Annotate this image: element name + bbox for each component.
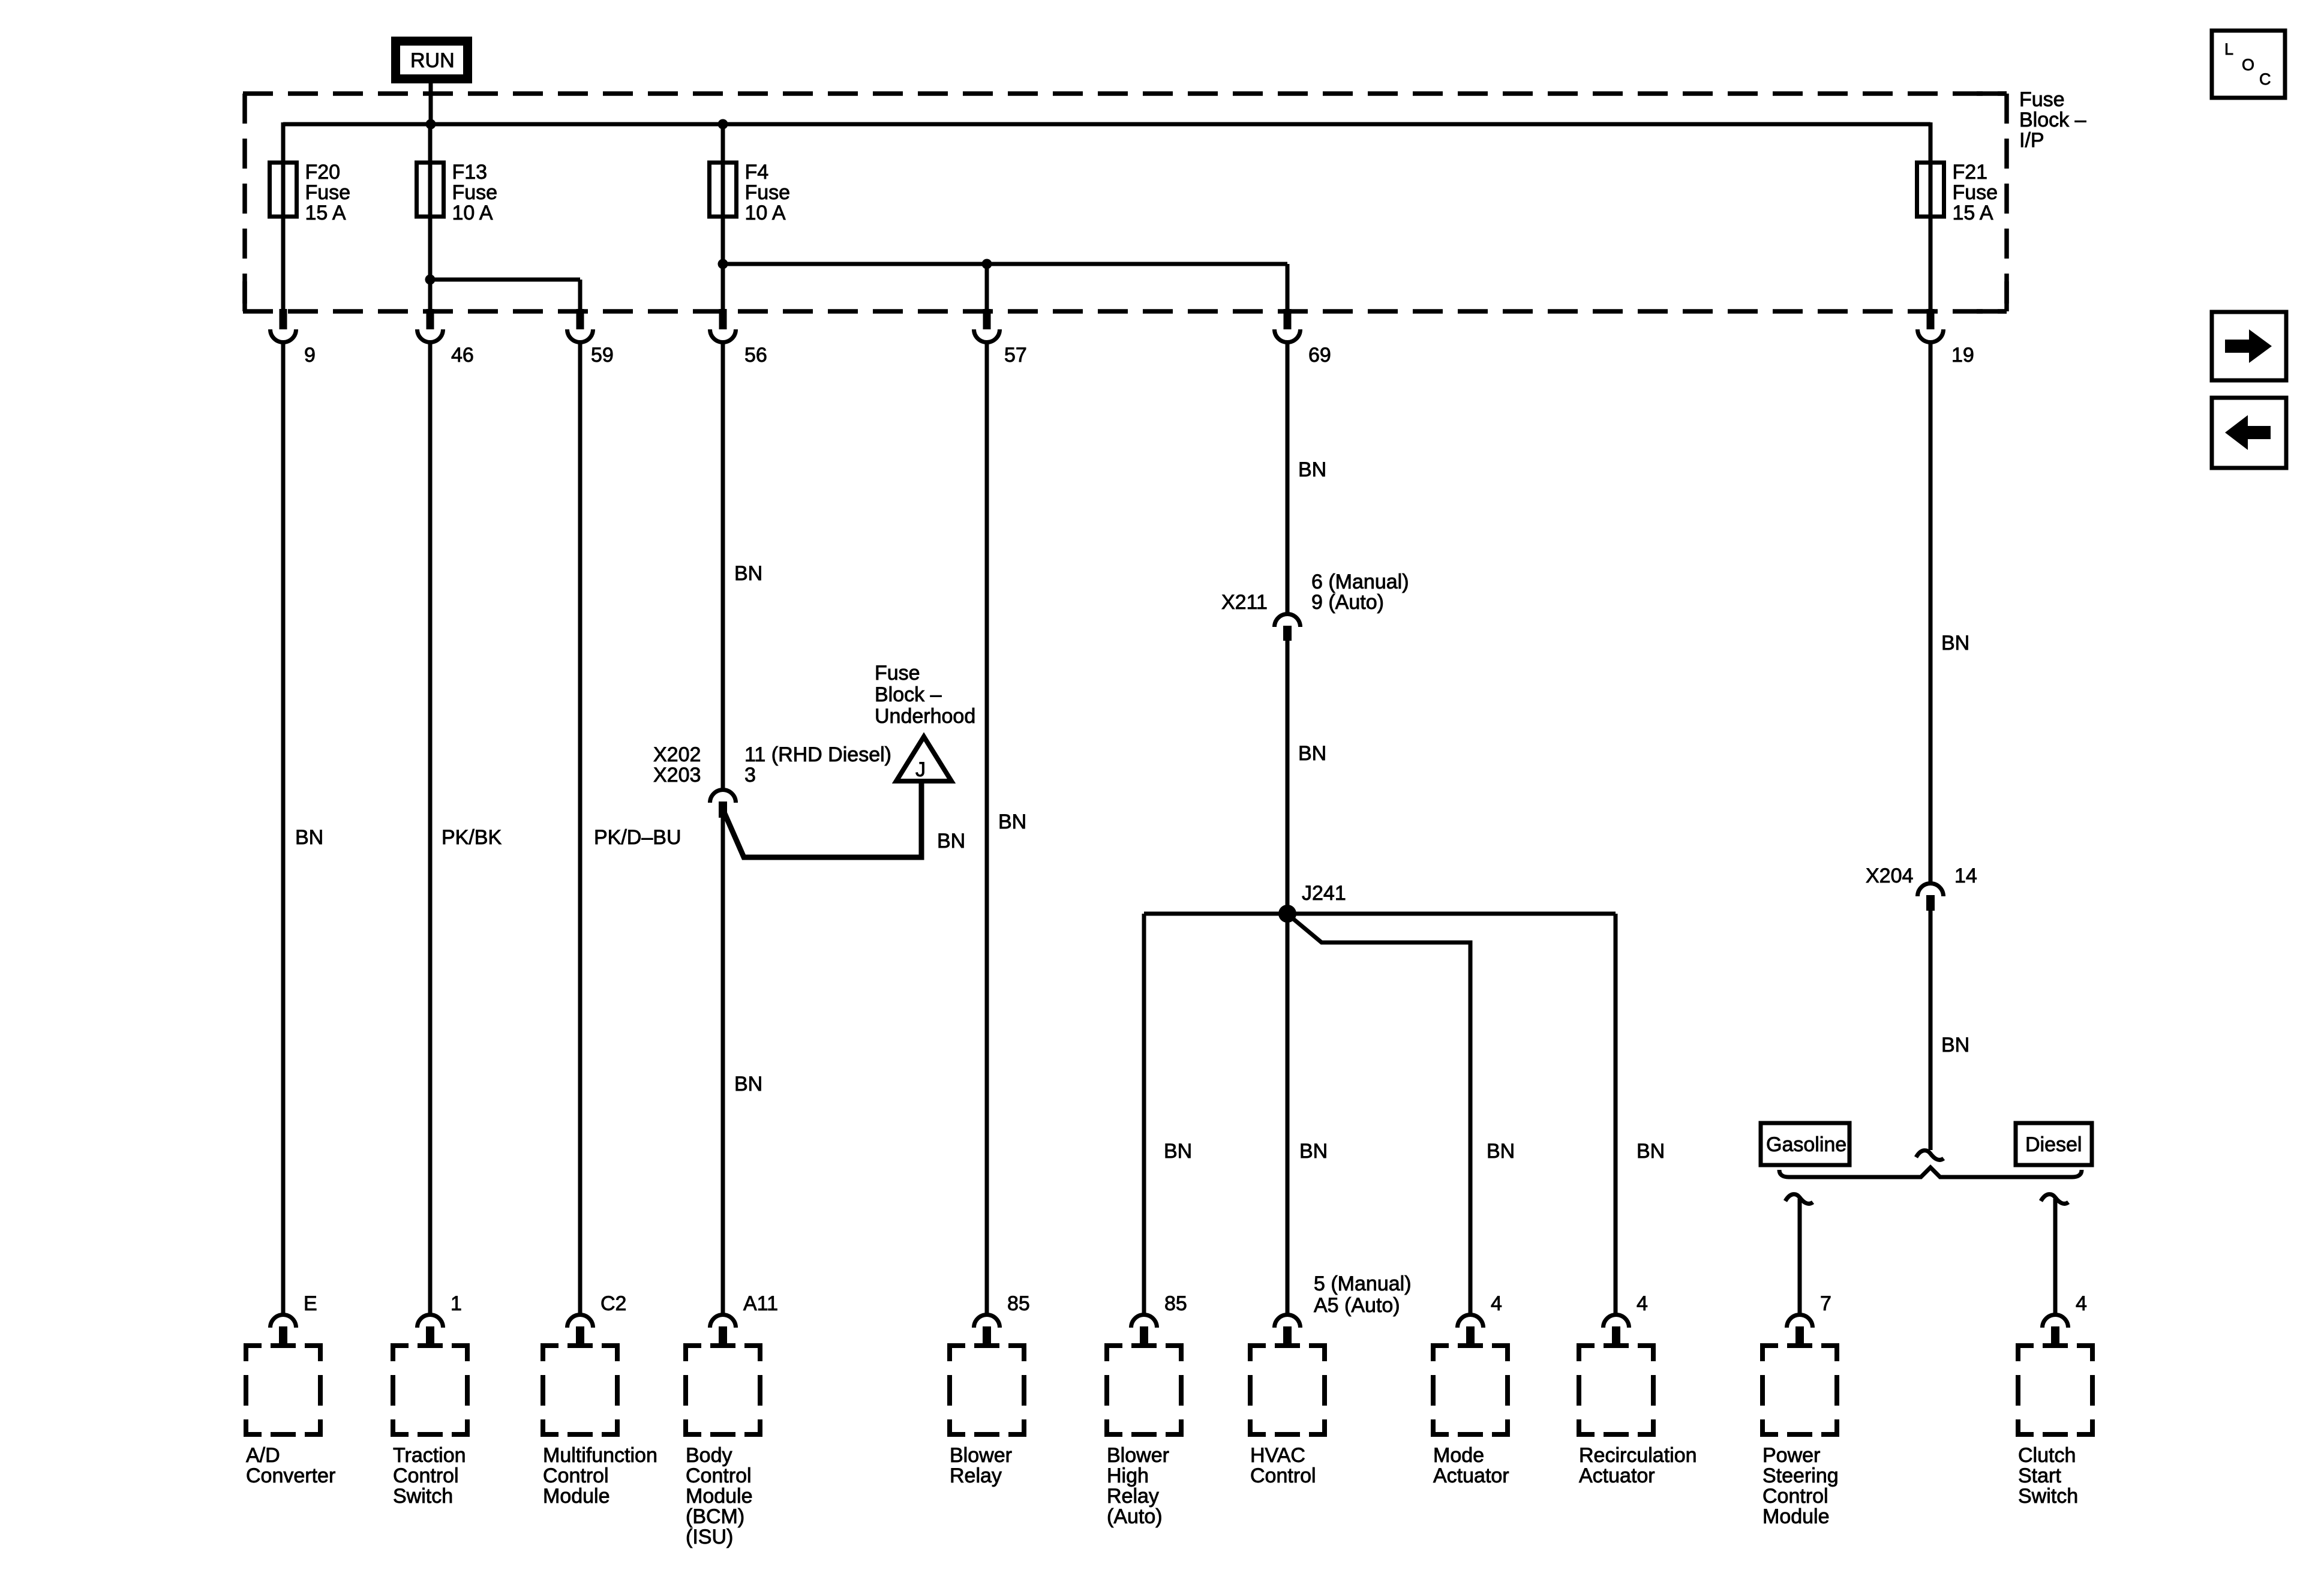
svg-text:Traction: Traction	[393, 1444, 466, 1467]
wire J241 horizontal	[1144, 912, 1616, 916]
label recirculation actuator	[1579, 1444, 1697, 1487]
svg-text:(BCM): (BCM)	[686, 1505, 744, 1528]
svg-text:69: 69	[1308, 344, 1331, 367]
svg-text:Module: Module	[543, 1485, 610, 1508]
component box mode actuator	[1433, 1346, 1508, 1434]
svg-text:Body: Body	[686, 1444, 732, 1467]
wire break curl gasoline branch	[1785, 1194, 1813, 1204]
svg-text:Control: Control	[686, 1464, 752, 1487]
svg-text:BN: BN	[295, 826, 323, 849]
svg-text:56: 56	[744, 344, 767, 367]
label Fuse Block - Underhood	[875, 662, 975, 728]
wire PK/D-BU to multifunction control module	[578, 342, 582, 1314]
svg-text:11 (RHD Diesel): 11 (RHD Diesel)	[744, 743, 891, 766]
svg-text:A11: A11	[743, 1292, 778, 1315]
connector terminal 19	[1918, 309, 1944, 343]
svg-text:4: 4	[1491, 1292, 1502, 1315]
svg-text:10 A: 10 A	[745, 202, 786, 224]
arrow right box	[2212, 312, 2286, 380]
label blower relay	[950, 1444, 1012, 1487]
svg-text:85: 85	[1164, 1292, 1187, 1315]
svg-text:Start: Start	[2018, 1464, 2061, 1487]
connector terminal 56	[710, 309, 736, 343]
svg-text:Module: Module	[1762, 1505, 1830, 1528]
option label box Gasoline	[1761, 1123, 1849, 1165]
svg-text:Control: Control	[1250, 1464, 1316, 1487]
wire BN to blower high relay	[1142, 914, 1146, 1314]
svg-text:57: 57	[1004, 344, 1027, 367]
wire F21 branch	[1929, 122, 1933, 311]
splice J241	[1278, 905, 1296, 923]
svg-text:46: 46	[451, 344, 474, 367]
component box traction control switch	[393, 1346, 467, 1434]
wire BN to A/D converter	[281, 342, 286, 1314]
svg-text:Switch: Switch	[393, 1485, 453, 1508]
svg-text:Fuse: Fuse	[1953, 181, 1998, 204]
svg-text:4: 4	[2076, 1292, 2087, 1315]
wire to clutch start switch	[2053, 1199, 2058, 1314]
svg-text:59: 59	[591, 344, 614, 367]
svg-text:X211: X211	[1221, 591, 1268, 614]
svg-text:A/D: A/D	[246, 1444, 280, 1467]
wire J241 to mode actuator	[1289, 915, 1470, 1314]
svg-text:15 A: 15 A	[305, 202, 346, 224]
svg-text:Fuse: Fuse	[305, 181, 351, 204]
svg-text:BN: BN	[1637, 1140, 1665, 1163]
option split brace	[1779, 1167, 2082, 1177]
svg-text:Control: Control	[393, 1464, 459, 1487]
component box A/D converter	[246, 1346, 320, 1434]
connector X202/X203	[710, 790, 736, 818]
arrow triangle J to fuse block underhood	[896, 737, 951, 781]
svg-text:BN: BN	[998, 810, 1026, 833]
LOC reference box	[2212, 31, 2285, 98]
connector pin at mode actuator	[1458, 1315, 1484, 1346]
svg-text:7: 7	[1820, 1292, 1831, 1315]
svg-text:Module: Module	[686, 1485, 753, 1508]
svg-text:F21: F21	[1953, 161, 1988, 184]
svg-text:Actuator: Actuator	[1433, 1464, 1509, 1487]
label HVAC control	[1250, 1444, 1316, 1487]
component box blower high relay auto	[1107, 1346, 1181, 1434]
label body control module BCM ISU	[686, 1444, 753, 1548]
wire branch to fuse block underhood	[725, 782, 921, 857]
component box HVAC control	[1250, 1346, 1325, 1434]
component box multifunction control module	[543, 1346, 617, 1434]
svg-text:85: 85	[1007, 1292, 1030, 1315]
svg-text:9: 9	[304, 344, 316, 367]
svg-text:6 (Manual): 6 (Manual)	[1311, 571, 1409, 593]
svg-text:10 A: 10 A	[452, 202, 493, 224]
svg-text:5 (Manual): 5 (Manual)	[1314, 1272, 1412, 1295]
svg-text:Power: Power	[1762, 1444, 1820, 1467]
wire BN to BCM	[721, 816, 725, 1314]
junction F4 link	[718, 259, 728, 269]
svg-text:BN: BN	[1298, 742, 1326, 765]
connector X211	[1275, 614, 1301, 641]
svg-text:Control: Control	[1762, 1485, 1828, 1508]
svg-text:19: 19	[1951, 344, 1974, 367]
component box recirculation actuator	[1579, 1346, 1653, 1434]
svg-text:BN: BN	[1487, 1140, 1515, 1163]
svg-text:15 A: 15 A	[1953, 202, 1993, 224]
svg-text:1: 1	[451, 1292, 462, 1315]
connector pin at body control module BCM ISU	[710, 1315, 736, 1346]
component box blower relay	[950, 1346, 1024, 1434]
svg-text:X204: X204	[1866, 864, 1913, 887]
label multifunction control module	[543, 1444, 657, 1508]
svg-text:PK/D–BU: PK/D–BU	[594, 826, 681, 849]
wire terminal 59 drop	[578, 280, 582, 311]
svg-text:Relay: Relay	[950, 1464, 1002, 1487]
fuse F20 15A	[270, 161, 351, 224]
connector terminal 46	[418, 309, 443, 343]
svg-text:BN: BN	[1941, 1034, 1969, 1056]
svg-text:Fuse: Fuse	[745, 181, 791, 204]
svg-text:4: 4	[1637, 1292, 1648, 1315]
svg-text:Recirculation: Recirculation	[1579, 1444, 1697, 1467]
svg-text:BN: BN	[734, 562, 762, 585]
junction F13 link	[425, 275, 436, 285]
svg-text:L: L	[2224, 40, 2233, 58]
wire BN X211 to J241	[1286, 641, 1290, 914]
svg-text:J: J	[915, 758, 926, 781]
wire BN to HVAC control	[1286, 914, 1290, 1314]
connector pin at blower relay	[974, 1315, 1000, 1346]
svg-text:RUN: RUN	[410, 49, 455, 72]
svg-text:X203: X203	[653, 764, 701, 786]
junction RUN/bus	[426, 119, 436, 130]
svg-text:BN: BN	[734, 1073, 762, 1095]
connector pin at clutch start switch	[2043, 1315, 2068, 1346]
wire F13 branch	[428, 124, 433, 311]
junction bus/F4	[718, 119, 728, 130]
svg-text:Underhood: Underhood	[875, 705, 975, 728]
svg-text:Actuator: Actuator	[1579, 1464, 1655, 1487]
label Fuse Block - I/P	[2019, 88, 2086, 152]
fuse block I/P dashed outline	[243, 94, 2007, 311]
fuse F13 10A	[417, 161, 498, 224]
svg-text:F4: F4	[745, 161, 769, 184]
connector terminal 57	[974, 309, 1000, 343]
wire terminal 69 drop	[1286, 264, 1290, 311]
wire RUN to bus	[429, 83, 433, 127]
link F4 to terminals 57 and 69	[723, 262, 1287, 266]
svg-text:Diesel: Diesel	[2025, 1133, 2082, 1156]
svg-text:(ISU): (ISU)	[686, 1526, 733, 1548]
svg-text:BN: BN	[1299, 1140, 1328, 1163]
connector pin at blower high relay auto	[1131, 1315, 1157, 1346]
svg-text:Converter: Converter	[246, 1464, 335, 1487]
bus wire from F20 to F21	[283, 122, 1930, 127]
svg-text:BN: BN	[1941, 632, 1969, 655]
svg-text:Steering: Steering	[1762, 1464, 1839, 1487]
svg-text:BN: BN	[1164, 1140, 1192, 1163]
svg-text:Block –: Block –	[875, 683, 942, 706]
label power steering control module	[1762, 1444, 1839, 1528]
svg-text:O: O	[2242, 56, 2254, 74]
svg-text:Multifunction: Multifunction	[543, 1444, 657, 1467]
svg-text:F20: F20	[305, 161, 341, 184]
wire BN to X211	[1286, 342, 1290, 614]
connector terminal 69	[1275, 309, 1301, 343]
wire BN to X204	[1929, 342, 1933, 883]
label mode actuator	[1433, 1444, 1509, 1487]
wire BN to recirculation actuator	[1614, 914, 1618, 1314]
svg-text:High: High	[1107, 1464, 1149, 1487]
wire F20 branch	[281, 122, 286, 311]
svg-text:Fuse: Fuse	[2019, 88, 2065, 111]
connector X204	[1918, 884, 1944, 911]
svg-text:Mode: Mode	[1433, 1444, 1484, 1467]
ignition switch RUN box	[391, 37, 472, 83]
wire break curl diesel branch	[2041, 1194, 2068, 1204]
svg-text:Relay: Relay	[1107, 1485, 1159, 1508]
svg-text:HVAC: HVAC	[1250, 1444, 1305, 1467]
component box body control module BCM ISU	[686, 1346, 760, 1434]
svg-text:Block –: Block –	[2019, 109, 2086, 131]
svg-text:Gasoline: Gasoline	[1766, 1133, 1846, 1156]
svg-text:(Auto): (Auto)	[1107, 1505, 1163, 1528]
label A/D converter	[246, 1444, 335, 1487]
junction terminal 57	[982, 259, 992, 269]
svg-text:E: E	[304, 1292, 317, 1315]
connector pin at HVAC control	[1275, 1315, 1301, 1346]
wire PK/BK to traction control switch	[428, 342, 433, 1314]
svg-text:X202: X202	[653, 743, 701, 766]
svg-text:Fuse: Fuse	[452, 181, 498, 204]
fuse F4 10A	[710, 161, 791, 224]
svg-text:PK/BK: PK/BK	[442, 826, 502, 849]
svg-text:BN: BN	[937, 830, 965, 852]
svg-text:Blower: Blower	[1107, 1444, 1169, 1467]
svg-text:Blower: Blower	[950, 1444, 1012, 1467]
svg-text:9 (Auto): 9 (Auto)	[1311, 591, 1384, 614]
wire BN to blower relay	[985, 342, 989, 1314]
component box power steering control module	[1762, 1346, 1837, 1434]
label blower high relay auto	[1107, 1444, 1169, 1528]
wire BN to X202/X203	[721, 342, 725, 792]
wire BN X204 to split	[1929, 911, 1933, 1150]
svg-text:J241: J241	[1302, 882, 1346, 905]
connector terminal 9	[271, 309, 296, 343]
connector pin at power steering control module	[1787, 1315, 1813, 1346]
svg-text:F13: F13	[452, 161, 488, 184]
svg-text:3: 3	[744, 764, 756, 786]
connector pin at recirculation actuator	[1604, 1315, 1629, 1346]
connector pin at A/D converter	[271, 1315, 296, 1346]
label traction control switch	[393, 1444, 466, 1508]
connector pin at traction control switch	[418, 1315, 443, 1346]
wire to power steering control module	[1798, 1199, 1802, 1314]
svg-text:I/P: I/P	[2019, 129, 2044, 152]
option label box Diesel	[2016, 1123, 2092, 1165]
svg-text:14: 14	[1954, 864, 1977, 887]
svg-text:Control: Control	[543, 1464, 609, 1487]
arrow left box	[2212, 398, 2286, 468]
wire F4 branch	[721, 124, 725, 311]
wire break curl at split	[1916, 1151, 1944, 1160]
label X202 X203	[653, 743, 701, 786]
svg-text:C: C	[2259, 70, 2271, 88]
svg-text:A5 (Auto): A5 (Auto)	[1314, 1294, 1400, 1317]
label clutch start switch	[2018, 1444, 2078, 1508]
connector terminal 59	[568, 309, 593, 343]
svg-text:C2: C2	[600, 1292, 626, 1315]
svg-text:Switch: Switch	[2018, 1485, 2078, 1508]
connector pin at multifunction control module	[568, 1315, 593, 1346]
link F13 to terminal 59	[430, 278, 580, 282]
svg-text:Fuse: Fuse	[875, 662, 920, 685]
svg-text:BN: BN	[1298, 458, 1326, 481]
fuse F21 15A	[1917, 161, 1998, 224]
wire terminal 57 drop	[985, 264, 989, 311]
component box clutch start switch	[2018, 1346, 2092, 1434]
svg-text:Clutch: Clutch	[2018, 1444, 2076, 1467]
